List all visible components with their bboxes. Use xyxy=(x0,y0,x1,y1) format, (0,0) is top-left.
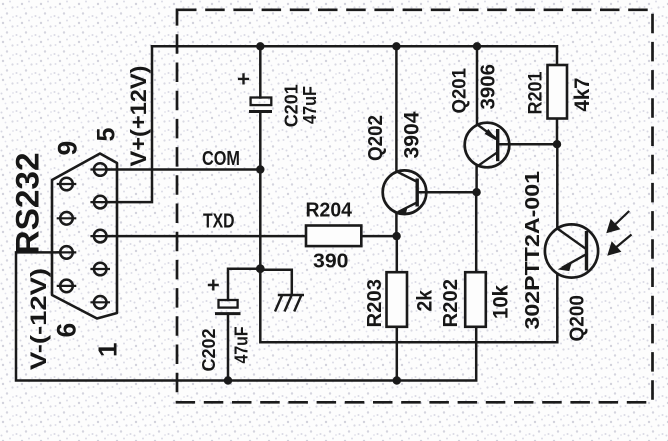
pin 2 xyxy=(92,263,109,276)
wire C202 top bend xyxy=(228,269,260,300)
wire V- from pin7 down and bottom rail xyxy=(16,252,476,380)
svg-text:47uF: 47uF xyxy=(300,86,320,124)
resistor R204 xyxy=(306,226,361,247)
wire TXD from pin3 to R204 xyxy=(107,235,307,238)
svg-text:R201: R201 xyxy=(526,71,547,114)
node: top rail / Q202 collector junction xyxy=(392,42,400,50)
svg-text:TXD: TXD xyxy=(203,210,235,233)
node: R201 / Q201 base / Q200 junction xyxy=(553,140,561,148)
svg-text:4k7: 4k7 xyxy=(571,78,594,112)
node: top rail / Q201 emitter junction xyxy=(473,42,481,50)
wire Q202 base to node A xyxy=(417,191,476,194)
pin 9 xyxy=(58,178,75,191)
svg-text:R203: R203 xyxy=(363,279,386,328)
svg-text:C202: C202 xyxy=(198,329,219,372)
resistor R202 xyxy=(465,272,486,327)
wire Q202 collector xyxy=(395,46,398,171)
node: ground / C202 junction xyxy=(256,264,265,273)
light arrow 1 into Q200 xyxy=(607,211,629,233)
wire node A to R202 xyxy=(475,192,478,272)
transistor Q202 (NPN 3904) xyxy=(383,170,427,214)
wire R201 bottom xyxy=(556,119,559,145)
svg-text:C201: C201 xyxy=(280,84,301,127)
pin 7 xyxy=(58,246,75,259)
node: top rail / C201 junction xyxy=(256,42,264,50)
ground symbol xyxy=(275,295,304,312)
node A: Q202 base / Q201 collector / R202 junction xyxy=(472,188,480,196)
wire C202 bottom xyxy=(227,314,230,381)
svg-text:5: 5 xyxy=(93,128,121,142)
wire Q201 emitter to rail xyxy=(476,46,479,124)
node: C202 / bottom rail junction xyxy=(224,376,232,384)
dashed enclosure border xyxy=(177,10,653,403)
svg-text:RS232: RS232 xyxy=(10,153,46,255)
resistor R201 xyxy=(548,65,568,119)
transistor Q201 (PNP 3906) xyxy=(465,123,510,168)
svg-text:Q201: Q201 xyxy=(449,68,471,114)
pin 3 xyxy=(92,230,109,243)
node: COM junction xyxy=(256,165,264,173)
svg-text:3904: 3904 xyxy=(401,111,424,158)
wire C201 bottom to COM node xyxy=(259,112,262,170)
wire ground stub xyxy=(260,270,292,295)
wire Q201 collector to node A xyxy=(475,167,478,192)
svg-text:V-(-12V): V-(-12V) xyxy=(26,268,51,370)
phototransistor Q200 (302PTT2A-001) xyxy=(545,224,598,277)
svg-text:9: 9 xyxy=(53,141,83,156)
svg-text:6: 6 xyxy=(52,323,82,338)
svg-text:1: 1 xyxy=(93,343,123,357)
svg-text:Q202: Q202 xyxy=(364,115,387,161)
wire Q202 emitter xyxy=(395,213,398,236)
svg-text:47uF: 47uF xyxy=(232,326,252,363)
connector J1 RS232 DB9 outline xyxy=(52,154,117,319)
pin 4 xyxy=(92,196,109,209)
wire COM node down to ground node xyxy=(259,170,262,269)
svg-text:10k: 10k xyxy=(490,285,513,319)
wire V+ from pin4 xyxy=(107,46,153,202)
svg-text:302PTT2A-001: 302PTT2A-001 xyxy=(522,171,544,330)
node: R203 / bottom rail junction xyxy=(393,376,401,384)
svg-text:R204: R204 xyxy=(306,199,353,222)
svg-text:Q200: Q200 xyxy=(567,295,589,342)
svg-text:3906: 3906 xyxy=(478,64,500,110)
pin 6 xyxy=(58,280,75,293)
wire R204 to Q202 emitter node xyxy=(361,235,396,238)
capacitor C202 xyxy=(208,280,241,314)
wire R203 bottom xyxy=(396,327,399,381)
capacitor C201 xyxy=(238,73,272,111)
svg-text:R202: R202 xyxy=(439,279,462,328)
node: R204 / Q202 emitter / R203 junction xyxy=(392,232,400,240)
wire top +12V rail xyxy=(152,46,557,65)
wire COM from pin5 to node xyxy=(107,168,261,171)
svg-text:390: 390 xyxy=(313,250,349,273)
wire R203 top xyxy=(396,236,399,272)
pin 1 xyxy=(92,296,109,309)
wire Q201 base to R201 node xyxy=(498,143,557,146)
resistor R203 xyxy=(387,272,408,327)
svg-text:2k: 2k xyxy=(413,290,437,312)
wire ground node down to emitter return rail xyxy=(260,269,557,343)
pin 5 xyxy=(92,163,109,176)
wire R201 node to Q200 collector xyxy=(556,144,559,228)
svg-text:COM: COM xyxy=(202,147,240,170)
light arrow 2 into Q200 xyxy=(608,235,632,256)
svg-text:V+(+12V): V+(+12V) xyxy=(126,66,151,167)
wire C201 top xyxy=(259,46,262,97)
pin 8 xyxy=(58,212,75,225)
